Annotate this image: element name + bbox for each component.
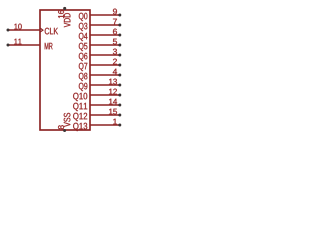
pin Q7 (pin 2) right side: [79, 59, 121, 71]
pin Q0 (pin 9) right side: [79, 9, 121, 21]
pin Q9 (pin 13) right side: [79, 79, 121, 91]
IC body U1 (4040 ripple counter): [40, 10, 90, 130]
pin Q3 (pin 7) right side: [79, 19, 121, 31]
pin Q12 (pin 15) right side: [73, 109, 121, 121]
pin CLK (pin 10) left side: [7, 24, 59, 35]
pin Q5 (pin 5) right side: [79, 39, 121, 51]
pin Q10 (pin 12) right side: [73, 89, 121, 101]
pin MR (pin 11) left side: [7, 39, 53, 50]
pin Q6 (pin 3) right side: [79, 49, 121, 61]
pin Q11 (pin 14) right side: [73, 99, 121, 111]
pin VSS (pin 8) bottom: [58, 113, 70, 132]
pin VDD (pin 16) top: [58, 7, 70, 27]
pin Q8 (pin 4) right side: [79, 69, 121, 81]
pin Q13 (pin 1) right side: [73, 119, 121, 131]
pin Q4 (pin 6) right side: [79, 29, 121, 41]
